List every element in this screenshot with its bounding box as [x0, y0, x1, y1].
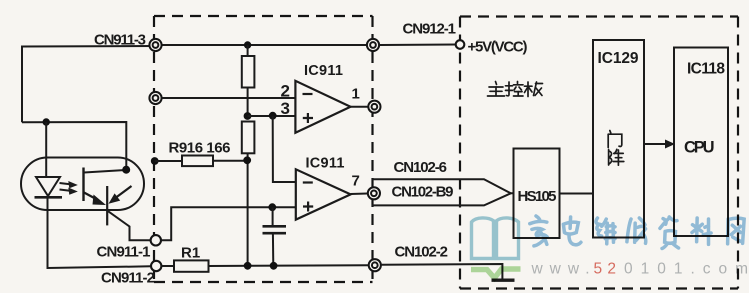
- ground: [492, 279, 515, 282]
- svg-text:CN102-2: CN102-2: [395, 244, 449, 261]
- wire: pin3 non-inverting input U1A: [248, 115, 296, 117]
- connector circle CN911-2: [151, 261, 161, 271]
- node: junction LED anode: [43, 118, 50, 125]
- node: junction bottom rail / capacitor: [270, 262, 278, 270]
- wire: pin3 junction down to U1B inverting input: [273, 116, 296, 182]
- watermark logo book icon: [471, 218, 521, 278]
- capacitor C1: [263, 207, 287, 266]
- svg-text:IC911: IC911: [306, 156, 345, 172]
- bus arrow CN102-6 / CN102-B9 to HS105: [372, 179, 514, 205]
- wire: LED anode drop: [45, 122, 47, 177]
- wire: top rail CN911-3 to CN912-1 (y=45): [156, 44, 374, 46]
- wire: CN102-2 to ground: [381, 264, 502, 280]
- resistor R916: [151, 156, 248, 167]
- svg-text:R1: R1: [181, 245, 200, 262]
- wire: CN911-1 to U1B non-inverting input: [161, 207, 296, 240]
- wire: U1A output: [351, 106, 369, 108]
- svg-text:2: 2: [281, 82, 290, 101]
- terminal CN912-1: [367, 39, 379, 51]
- svg-text:CN912-1: CN912-1: [403, 21, 457, 38]
- terminal CN102-2: [369, 259, 381, 271]
- svg-text:CN102-6: CN102-6: [394, 159, 448, 176]
- resistor divider top (vertical): [242, 45, 255, 116]
- svg-text:7: 7: [352, 173, 360, 190]
- svg-text:CN911-3: CN911-3: [94, 32, 146, 49]
- node: junction top rail / R divider: [244, 41, 251, 48]
- wire: HS105 to IC129: [560, 193, 594, 195]
- wire: U1B output: [351, 193, 368, 196]
- LED diode in optocoupler: [35, 177, 63, 197]
- node: junction pin3 row right: [269, 112, 277, 120]
- wire: horizontal to optocoupler collector: [22, 122, 126, 170]
- svg-text:CN911-2: CN911-2: [101, 270, 155, 287]
- terminal U1B output: [368, 187, 380, 199]
- watermark url www.520101.com: [531, 261, 749, 278]
- svg-text:IC118: IC118: [687, 61, 725, 78]
- node: collector dot: [122, 166, 130, 174]
- wire: LED cathode drop to CN911-2: [48, 198, 151, 269]
- watermark text 家电维修资料网 (cursive, light blue): [530, 216, 744, 249]
- wire: inverting input op-amp U1A: [162, 97, 295, 99]
- dashed board outline: main control board (right box): [460, 15, 738, 17]
- svg-text:IC911: IC911: [304, 63, 343, 79]
- optocoupler body: [21, 158, 144, 211]
- svg-text:IC129: IC129: [598, 50, 639, 67]
- node: junction pin3 row left: [244, 112, 252, 120]
- terminal CN911 pin2: [149, 92, 161, 104]
- op-amp U1A IC911: [295, 81, 350, 133]
- op-amp U1B IC911: [296, 169, 351, 219]
- svg-text:+5V(VCC): +5V(VCC): [468, 39, 528, 56]
- terminal CN911-3: [149, 39, 161, 51]
- IC IC118 CPU: [674, 48, 728, 237]
- node: junction R916/divider: [243, 156, 251, 164]
- resistor R1: [162, 260, 369, 271]
- wire: CN912-1 to +5V circle: [374, 44, 457, 47]
- dashed board outline: IC911 sub-board (middle box): [154, 15, 373, 17]
- label 主控板 (main control board): [488, 82, 543, 97]
- IC HS105: [514, 149, 560, 239]
- terminal U1A output: [368, 101, 380, 113]
- label 门阵 (gate array): [608, 131, 624, 166]
- phototransistor Q1: [84, 168, 151, 241]
- svg-text:3: 3: [281, 99, 290, 118]
- connector circle +5V: [456, 40, 465, 49]
- node: junction bottom rail / divider: [244, 262, 252, 270]
- svg-text:1: 1: [352, 86, 360, 103]
- svg-text:CN102-B9: CN102-B9: [392, 184, 454, 201]
- resistor divider bottom (vertical): [242, 122, 255, 267]
- arrow IC129 to IC118: [644, 140, 675, 149]
- light arrows: [60, 181, 78, 195]
- IC IC129 gate array: [593, 40, 644, 238]
- svg-text:CN911-1: CN911-1: [97, 244, 151, 261]
- svg-text:CPU: CPU: [684, 139, 715, 157]
- wire: CN911-3 left leg down: [22, 46, 156, 122]
- svg-text:HS105: HS105: [518, 188, 557, 205]
- node: junction + input / capacitor: [268, 203, 276, 211]
- svg-text:R916 166: R916 166: [169, 140, 231, 157]
- connector circle CN911-1: [151, 235, 161, 245]
